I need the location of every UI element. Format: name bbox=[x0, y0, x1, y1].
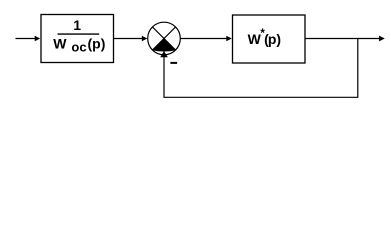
svg-text:oc: oc bbox=[71, 40, 86, 55]
svg-text:(p): (p) bbox=[88, 36, 106, 52]
svg-text:(p): (p) bbox=[264, 31, 281, 47]
svg-text:W: W bbox=[53, 36, 67, 52]
svg-text:1: 1 bbox=[73, 17, 81, 33]
